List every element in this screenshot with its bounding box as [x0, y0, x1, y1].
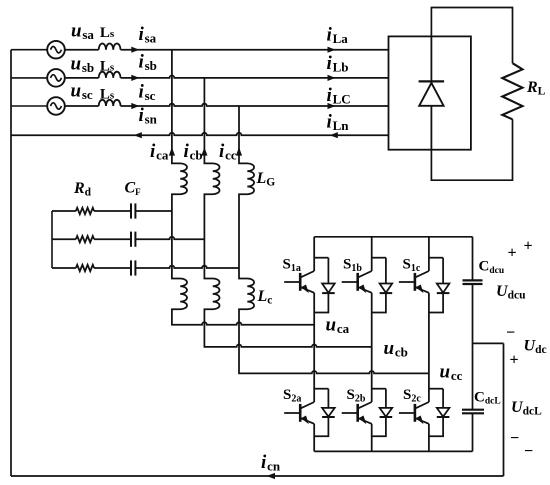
wire neutral line	[11, 133, 389, 135]
inductor Ls (phase a)	[99, 43, 121, 49]
wire branch 3 lead	[52, 267, 76, 269]
wire: leg a midpoint vertical	[313, 293, 315, 402]
diode (rectifier) stem	[430, 36, 432, 149]
arrow i_Ln	[330, 132, 338, 138]
arrow i_sb	[131, 75, 139, 81]
wire: left source bus	[10, 50, 12, 476]
transistor S2c (IGBT with diode)	[399, 389, 450, 437]
capacitor C_dcu	[463, 280, 483, 284]
wire: DC bus middle	[472, 284, 474, 409]
arrow i_cb	[201, 147, 207, 155]
wire branch 2 lead	[52, 238, 76, 240]
wire phase b line	[65, 76, 389, 78]
resistor R_d (branch 2)	[76, 236, 94, 242]
transistor S1c (IGBT with diode)	[399, 258, 450, 313]
svg-text:+: +	[523, 238, 532, 255]
wire branch 1 middle	[94, 210, 131, 212]
wire branch 3 to phase	[135, 266, 239, 268]
wire: leg a emitter to bottom rail	[313, 424, 315, 452]
wire: DC midpoint tap	[473, 342, 504, 344]
wire: leg c midpoint vertical	[428, 293, 430, 402]
wire: leg b collector drop	[371, 237, 373, 271]
wire branch 1 to phase	[135, 210, 172, 212]
wire: leg c collector drop	[428, 237, 430, 271]
wire branch 3 middle	[94, 267, 131, 269]
inductor Ls (phase c)	[99, 100, 121, 106]
wire: phase b tap, inductors L_G/L_c, node u_cb	[204, 78, 371, 347]
svg-text:Ls: Ls	[100, 25, 115, 41]
svg-text:+: +	[507, 245, 516, 262]
arrow i_ca	[169, 147, 175, 155]
arrow i_cn	[267, 473, 275, 479]
wire: leg b midpoint vertical	[371, 293, 373, 402]
wire: phase a tap, inductors L_G/L_c, node u_ca	[172, 50, 314, 325]
AC source u_sa	[11, 41, 65, 59]
svg-text:+: +	[509, 352, 518, 369]
wire: rectifier top to R_L	[431, 8, 512, 64]
wire: converter top rail	[314, 236, 472, 238]
svg-text:Ls: Ls	[100, 87, 115, 103]
wire: phase c tap, inductors L_G/L_c, node u_cc	[239, 106, 429, 373]
wire: converter bottom rail	[314, 450, 472, 452]
capacitor C_dcL	[462, 410, 484, 414]
wire branch 2 to phase	[135, 237, 204, 239]
rectifier box	[389, 36, 471, 149]
wire: DC bus lower	[472, 414, 474, 452]
arrow i_cc	[236, 147, 242, 155]
diode (rectifier) cathode bar	[419, 80, 445, 82]
transistor S1a (IGBT with diode)	[284, 258, 335, 313]
arrow i_La	[328, 47, 336, 53]
wire: leg c emitter to bottom rail	[428, 424, 430, 452]
capacitor C_F (branch 2)	[131, 232, 135, 247]
wire: leg b emitter to bottom rail	[371, 424, 373, 452]
wire: leg a collector drop	[313, 237, 315, 271]
diode (rectifier) triangle	[419, 83, 443, 106]
svg-text:Ls: Ls	[100, 59, 115, 75]
wire: rectifier bottom to R_L	[431, 119, 512, 180]
resistor R_L	[502, 63, 522, 119]
wire: DC bus upper	[472, 237, 474, 280]
wire phase a line	[65, 49, 389, 51]
wire: right outer vertical	[503, 343, 505, 476]
resistor R_d (branch 3)	[76, 265, 94, 271]
wire branch 2 middle	[94, 238, 131, 240]
arrow i_LC	[328, 103, 336, 109]
arrow i_sa	[131, 47, 139, 53]
svg-text:−: −	[506, 325, 515, 342]
transistor S2b (IGBT with diode)	[342, 389, 393, 437]
wire: bottom neutral return	[11, 475, 504, 477]
svg-text:−: −	[510, 430, 519, 447]
capacitor C_F (branch 1)	[131, 203, 135, 218]
AC source u_sb	[11, 69, 65, 87]
wire phase c line	[65, 104, 389, 106]
inductor Ls (phase b)	[99, 72, 121, 78]
capacitor C_F (branch 3)	[131, 260, 135, 275]
wire branch 1 lead	[52, 210, 76, 212]
arrow i_Lb	[328, 75, 336, 81]
wire: RC network left bus	[51, 211, 53, 268]
transistor S1b (IGBT with diode)	[342, 258, 393, 313]
AC source u_sc	[11, 97, 65, 115]
transistor S2a (IGBT with diode)	[284, 389, 335, 437]
arrow i_sc	[131, 103, 139, 109]
svg-text:−: −	[524, 443, 533, 460]
resistor R_d (branch 1)	[76, 208, 94, 214]
arrow i_sn	[134, 132, 142, 138]
